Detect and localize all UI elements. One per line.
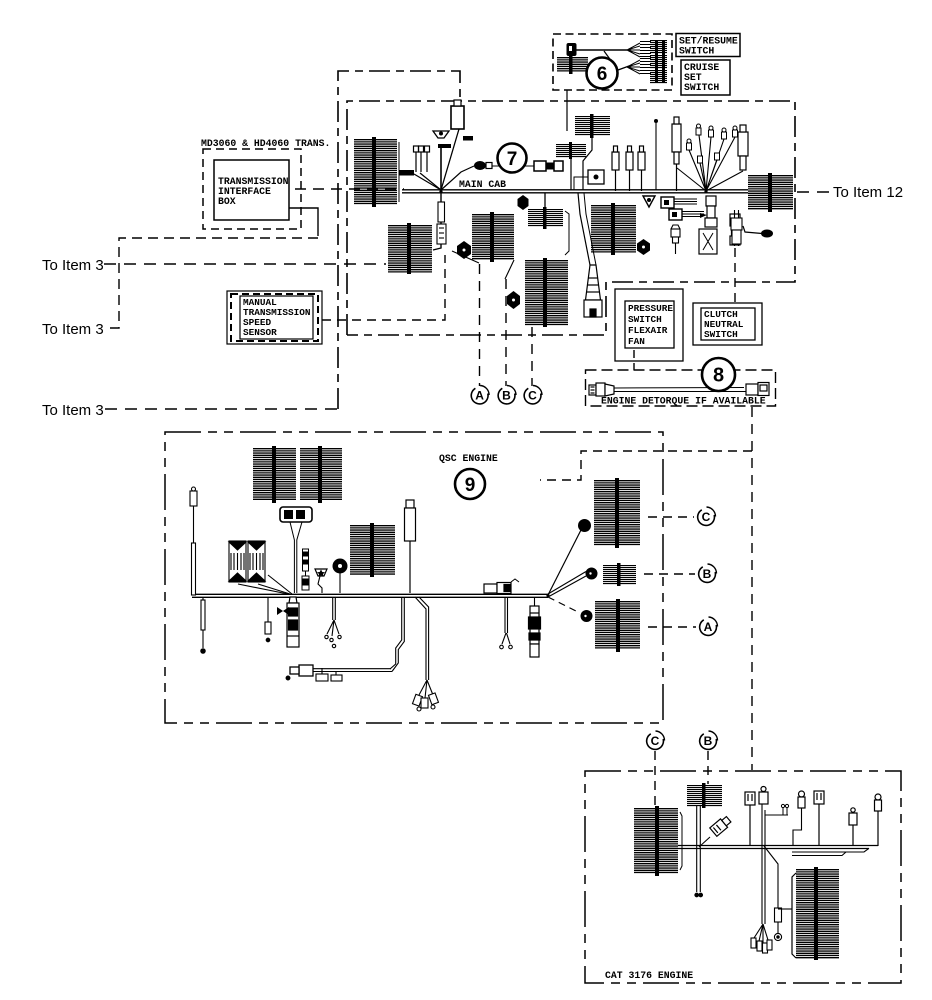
svg-text:C: C <box>651 734 660 748</box>
relay connector <box>451 100 473 141</box>
label circle A right <box>700 617 718 635</box>
wire J1 to bar terminal <box>414 174 441 190</box>
svg-text:SWITCH: SWITCH <box>684 82 719 93</box>
ENGINE DETORQUE box <box>586 370 776 406</box>
fan at bottom of JC2 drop <box>751 924 772 953</box>
bracket right of B5 <box>565 211 569 255</box>
connector block B2 <box>388 223 432 274</box>
dot A <box>581 610 593 622</box>
wire J1 to bullet connector <box>441 166 474 190</box>
svg-text:B: B <box>704 734 713 748</box>
wire to A leader <box>452 251 479 263</box>
drop fork below trunk <box>500 597 513 649</box>
item circle 7 <box>498 144 527 173</box>
item circle 8 <box>702 358 735 391</box>
sub connectors under run <box>316 668 342 681</box>
wire J1 to fork connectors <box>420 173 441 190</box>
svg-text:6: 6 <box>597 64 608 85</box>
wire J1 drop below trunk <box>433 193 441 250</box>
junction JQ <box>546 594 549 597</box>
wire bullet to inline plug <box>492 165 534 167</box>
item 6 harness connector block <box>557 55 588 74</box>
wire JC2 diagonal to ring terminal <box>764 846 782 941</box>
arrow coupler symbol <box>277 607 289 615</box>
wire fan upper (trumpet) <box>627 42 651 58</box>
branch harness lower-left run <box>313 597 404 672</box>
wire B6 to trunk <box>570 159 572 190</box>
dashed leader B <box>505 279 507 386</box>
svg-text:8: 8 <box>713 365 724 387</box>
svg-text:To Item 12: To Item 12 <box>833 184 903 201</box>
MANUAL TRANSMISSION SPEED SENSOR box <box>227 291 322 344</box>
dashed path into QSC right <box>540 451 752 480</box>
dashed leader pressure switch to detorque <box>605 350 634 376</box>
pin connector above trunk <box>405 500 416 593</box>
connector block B20 <box>687 783 722 808</box>
svg-text:C: C <box>702 510 711 524</box>
svg-text:SWITCH: SWITCH <box>679 46 714 57</box>
svg-text:A: A <box>475 389 484 403</box>
inline plug pair <box>534 161 563 171</box>
connector block B6 <box>556 142 586 159</box>
dashed leader transmission box to trunk <box>295 188 404 190</box>
dashed wire ECU to trunk <box>290 522 302 593</box>
svg-text:To Item 3: To Item 3 <box>42 257 104 274</box>
connector block B9 <box>748 173 793 212</box>
connector block B4 <box>525 258 568 327</box>
long sense wire with ball <box>654 119 658 190</box>
top connector T5 with stem <box>875 794 882 846</box>
connector block B19 <box>634 806 682 876</box>
dashed leader C into CAT <box>654 751 656 806</box>
angled plug connector <box>710 815 732 836</box>
detorque cable left connector <box>589 383 614 396</box>
leader from item 6 box to main cab <box>566 90 568 131</box>
CAT second run <box>792 848 869 855</box>
inline connector on QSC trunk <box>484 579 519 594</box>
svg-text:PRESSURE: PRESSURE <box>628 303 673 314</box>
wire trunk to B5 <box>544 193 546 209</box>
junction J1 <box>439 190 442 193</box>
wire JQ to dot B (double) <box>548 572 586 598</box>
small fork on JC2 drop <box>765 804 789 815</box>
svg-text:FLEXAIR: FLEXAIR <box>628 325 668 336</box>
fuse block 1 <box>229 541 246 582</box>
label circle C right <box>698 507 716 525</box>
CAT trunk wire <box>678 846 878 849</box>
wire below B9 <box>731 210 742 246</box>
label circle B <box>498 386 516 404</box>
svg-text:SWITCH: SWITCH <box>704 329 738 340</box>
top connector T3 with stem <box>814 791 824 845</box>
connector block B21 <box>792 867 839 960</box>
tall cylinder connector <box>672 117 681 191</box>
sensor connector pair on ECU drop <box>302 549 309 590</box>
wire to B leader <box>505 260 514 279</box>
TRANSMISSION INTERFACE BOX <box>214 160 289 220</box>
dashed leader B into CAT <box>707 751 709 784</box>
dot C <box>578 519 591 532</box>
dashed leader C <box>531 327 533 386</box>
svg-text:To Item 3: To Item 3 <box>42 402 104 419</box>
wire JQ to dot C <box>548 528 582 595</box>
dashed leader A <box>479 264 481 386</box>
SET/RESUME SWITCH label box <box>676 34 740 57</box>
svg-text:FAN: FAN <box>628 336 645 347</box>
connector block B18 <box>595 599 640 652</box>
top connector T2 with stem <box>793 791 805 845</box>
fork connector group <box>414 146 430 172</box>
dashed leader to circle A <box>648 626 696 628</box>
To Item 3 line 3 <box>105 408 338 410</box>
wire B7 to trunk <box>583 136 592 190</box>
svg-text:ENGINE DETORQUE IF AVAILABLE: ENGINE DETORQUE IF AVAILABLE <box>601 396 766 407</box>
fan terminals of right-down run <box>412 693 438 711</box>
hex grommet A <box>518 195 529 210</box>
dashed leader to circle B <box>644 573 695 575</box>
plug with striped bundle 1 <box>661 197 697 208</box>
left riser connector <box>190 487 197 595</box>
ECU connector <box>280 507 312 522</box>
svg-text:B: B <box>502 389 511 403</box>
dashed leader speed sensor to harness <box>322 255 445 320</box>
PRESSURE SWITCH FLEXAIR FAN box <box>615 289 683 361</box>
dot B <box>586 568 598 580</box>
svg-text:C: C <box>528 389 537 403</box>
junction J2 <box>704 190 707 193</box>
connector block B15 <box>350 523 395 577</box>
connector block B8 <box>591 203 636 255</box>
MD3060 dashed box <box>203 149 301 229</box>
small capped connector below trunk <box>671 225 680 254</box>
wire bracket B21 feed <box>778 908 792 910</box>
fan terminals at J2 <box>687 124 738 163</box>
svg-text:QSC ENGINE: QSC ENGINE <box>439 453 498 464</box>
segmented connector with box <box>699 196 717 254</box>
top connector T4 with stem <box>849 808 857 845</box>
star sensor symbol <box>315 569 327 593</box>
svg-text:To Item 3: To Item 3 <box>42 321 104 338</box>
connector block B7 <box>575 114 610 138</box>
connector above JC2 <box>759 787 768 805</box>
svg-text:SWITCH: SWITCH <box>628 314 662 325</box>
branch harness right-down run <box>415 597 433 698</box>
wire J1 to relay <box>441 129 459 190</box>
svg-text:MD3060 & HD4060 TRANS.: MD3060 & HD4060 TRANS. <box>201 138 330 149</box>
horn symbol on riser <box>433 131 451 148</box>
connector block B3 <box>472 212 514 262</box>
dashed wire JQ to dot A <box>548 597 580 613</box>
main cab trunk wire <box>402 190 748 193</box>
label circle A <box>471 386 489 404</box>
bullet connector <box>474 161 492 170</box>
label circle C <box>524 386 542 404</box>
label circle C lower <box>647 731 665 749</box>
inner dashed boundary (main cab box with notch) <box>347 101 795 335</box>
triangle connector <box>643 196 655 207</box>
item 6 harness dashed box <box>553 34 672 90</box>
label circle B right <box>699 564 717 582</box>
hex grommet C <box>507 291 520 309</box>
pump connector below trunk <box>287 597 299 647</box>
hex grommet B <box>457 241 471 259</box>
end connector of lower-left run <box>286 665 313 680</box>
diagnostic box with dot <box>574 170 604 190</box>
detorque cable right connector <box>746 383 769 396</box>
svg-text:SENSOR: SENSOR <box>243 327 277 338</box>
drop connector sleeve <box>437 202 446 244</box>
detorque cable <box>614 388 746 392</box>
connector block B13 <box>253 446 296 503</box>
QSC trunk wire <box>192 594 548 597</box>
svg-text:A: A <box>704 620 713 634</box>
tall connector at J2 <box>738 125 748 170</box>
CRUISE SET SWITCH label box <box>681 60 730 95</box>
connector block B5 <box>528 207 563 229</box>
svg-text:7: 7 <box>507 149 518 170</box>
wire L from transmission box <box>289 208 318 236</box>
bar terminal <box>399 170 414 176</box>
wire diagonal fan feed <box>604 51 612 62</box>
wire circle6 to fan <box>618 66 629 70</box>
label circle B lower <box>700 731 718 749</box>
To Item 12 dashes <box>797 191 830 193</box>
drop fan with terminals <box>325 597 341 648</box>
To Item 3 line 1 <box>104 263 386 265</box>
tapered connector right of B4 <box>578 193 602 317</box>
connector block B16 <box>594 478 640 548</box>
top connector T1 with stem <box>745 792 755 845</box>
small drop connector <box>265 597 271 642</box>
hex grommet D <box>637 239 650 255</box>
plug with striped bundle 2 <box>669 209 707 220</box>
drop injector connector below trunk <box>529 597 541 657</box>
segmented connector 2 (to clutch) <box>730 214 740 245</box>
ring sensor symbol <box>333 559 348 594</box>
drop wire with bead <box>201 597 205 653</box>
CLUTCH NEUTRAL SWITCH box <box>693 303 762 345</box>
dashed leader detorque down to CAT <box>751 407 753 770</box>
connector block B14 <box>300 446 342 503</box>
svg-text:B: B <box>703 567 712 581</box>
QSC ENGINE box <box>165 432 663 723</box>
wire from connector to fan <box>576 49 627 51</box>
dashed leader to clutch switch <box>734 248 736 302</box>
wire J1 vertical riser <box>440 148 442 190</box>
item circle 6 <box>587 58 618 89</box>
item 6 small connector <box>567 43 577 56</box>
wire bend with oval terminal <box>743 226 773 238</box>
svg-text:CAT 3176 ENGINE: CAT 3176 ENGINE <box>605 970 693 981</box>
connector block B17 <box>603 563 636 586</box>
outer dashed boundary (item 7 region, stepped) <box>338 71 460 409</box>
item 6 connector block stack <box>650 40 667 83</box>
wire fan at J2 <box>677 135 743 191</box>
fuse block 2 <box>248 541 265 582</box>
wire B20 drop through trunk <box>695 806 703 897</box>
cylinder connector group above trunk <box>612 146 645 191</box>
dashed path to item 3 top <box>105 238 318 328</box>
svg-text:BOX: BOX <box>218 196 236 207</box>
wire angled plug to junction <box>699 837 710 847</box>
CAT 3176 ENGINE box <box>585 771 901 983</box>
dashed leader to circle C <box>648 516 694 518</box>
item circle 9 <box>455 469 485 499</box>
svg-text:9: 9 <box>465 475 476 496</box>
junction JC2 vertical drop <box>762 804 765 924</box>
wires fuse blocks to junction <box>238 575 292 594</box>
svg-text:MAIN CAB: MAIN CAB <box>459 179 506 190</box>
connector block B1 <box>354 137 399 207</box>
wire fan lower (trumpet) <box>627 59 651 75</box>
